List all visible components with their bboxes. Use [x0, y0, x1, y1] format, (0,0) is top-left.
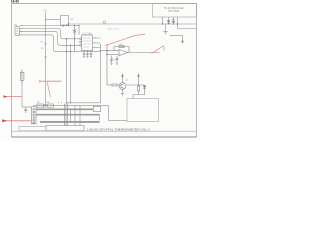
junction dot A38 [66, 38, 67, 39]
junction dot bus start 3 [21, 30, 22, 33]
resistor R7 base [112, 84, 117, 86]
diode D2 in inset [172, 20, 175, 23]
red line R4 [4, 120, 31, 122]
wire bus line 4 [22, 35, 101, 52]
border frame left [11, 4, 13, 138]
wire to ground from rail [165, 24, 167, 32]
wire vertical bus left [45, 12, 47, 106]
resistor R8 vertical [137, 86, 139, 91]
small rect bottom left [19, 127, 46, 131]
Q1 circle [119, 83, 126, 90]
junction dot A51 [66, 51, 67, 52]
red horizontal R3 with arrow [5, 96, 22, 98]
ground C1 [83, 56, 85, 57]
svg-text:16-30: 16-30 [11, 0, 19, 4]
red annotation horizontal R1 [40, 80, 62, 83]
supply arrow 2 [138, 74, 140, 76]
LED D3 [143, 86, 145, 89]
junction dot rail-pin2 [168, 23, 169, 24]
wire Q1 to meter [132, 95, 134, 99]
svg-text:10k: 10k [114, 60, 117, 62]
junction dot U3 in2 [106, 54, 107, 55]
meter box M1 [127, 99, 159, 122]
junction dot rail-pin4 [177, 23, 178, 24]
junction dot Q1 wire [138, 84, 139, 85]
supply arrow Q1 [122, 74, 124, 76]
display connector P2 [32, 107, 37, 124]
inset pin stub 3 [172, 17, 174, 24]
red annotation line A [106, 34, 146, 45]
wire top of display row [33, 105, 109, 107]
junction dot bus start 2 [21, 28, 22, 29]
wire supply2 down [138, 76, 140, 86]
junction dot U3 in [106, 50, 107, 51]
junction dot out U2 [100, 44, 101, 45]
wire x22 to P2 [22, 106, 32, 108]
wire Q1 collector right [126, 84, 145, 86]
pin connection inset box [153, 4, 197, 18]
ground U3 area [110, 64, 118, 65]
junction dot bus start 4 [21, 34, 22, 35]
border frame top [12, 3, 197, 5]
U2 left pin circles [80, 38, 82, 40]
capacitor C3 [90, 53, 92, 56]
wire B1 pin down right [66, 24, 68, 27]
capacitor C4 [116, 56, 119, 63]
junction dot R3 top [74, 25, 75, 26]
resistor R5 on feedback [119, 45, 124, 47]
junction dot rail-pin1 [162, 23, 163, 24]
LCD bus band 2 [36, 114, 100, 116]
red arrowhead R4 [2, 119, 7, 122]
connector P1 left [15, 26, 22, 36]
inset pin stub 1 [162, 17, 164, 24]
inset pin stub 4 [177, 17, 179, 29]
arrow terminal [182, 41, 184, 43]
svg-text:LIQUID CRYSTAL THERMOMETER VO: LIQUID CRYSTAL THERMOMETER VOL-2 [87, 128, 150, 132]
wire R8 down [133, 91, 139, 95]
red slant R2 [47, 82, 50, 97]
pin circle B1 left [62, 25, 64, 27]
capacitor C5 [24, 107, 27, 113]
junction dot r3 bus3 [74, 45, 75, 46]
U2 inner marks [83, 38, 91, 47]
bottom rectangle [46, 126, 84, 131]
wire x107 vertical [106, 44, 108, 85]
ground C3 [90, 56, 92, 57]
border frame bottom outer [12, 136, 197, 138]
inset pin stub 2 [168, 17, 170, 24]
junction dot x100 out [100, 50, 101, 51]
junction dot bus1-x68 [68, 25, 69, 26]
wire vertical x68.4 [67, 24, 69, 26]
svg-text:ICL7106: ICL7106 [83, 32, 93, 35]
lamp tap on rail [103, 21, 106, 24]
wire D3 [139, 85, 145, 95]
junction dots bottom row [58, 102, 59, 103]
junction dot x22 top [21, 70, 22, 71]
wire segment right lower [170, 35, 183, 41]
junction dot bus1-x66 [66, 25, 67, 26]
wire right column x100.5 [100, 45, 102, 103]
wire bus line 3 [22, 32, 81, 46]
wire supply rail [69, 23, 197, 25]
tick on x46 [44, 44, 47, 57]
wire long vertical B [70, 45, 72, 103]
LCD bus band 3 [40, 121, 100, 123]
junction dot x22 bottom [21, 82, 22, 83]
lamp LP1 [44, 104, 47, 107]
ground symbol inset [163, 32, 168, 34]
Q1 inner [121, 84, 125, 89]
svg-text:ADJ 100mV: ADJ 100mV [108, 28, 120, 31]
wire drops to bottom rect [64, 104, 80, 126]
resistor R2 on x22 [20, 73, 24, 81]
junction dot B45 [70, 45, 71, 46]
junction dot A45 [66, 45, 67, 46]
wire battery to bus [46, 19, 61, 21]
resistor R10 [48, 104, 54, 107]
svg-text:TOP VIEW: TOP VIEW [168, 10, 180, 13]
junction dot bus start 1 [21, 25, 22, 26]
op-amp U3 [107, 44, 160, 85]
wire to opamp2 [101, 50, 108, 52]
wire Q1 base [107, 84, 112, 86]
wire Q1 collector supply [122, 76, 124, 83]
wire U3 output [129, 52, 160, 54]
junction dot r3 bus2 [74, 38, 75, 39]
red annotation line B [152, 46, 165, 54]
wire bottom cross [67, 102, 101, 104]
transistor Q1 stage [107, 74, 146, 96]
wire bus line 2 [22, 29, 81, 39]
wire display top corner [109, 106, 127, 121]
svg-text:1M: 1M [41, 48, 44, 50]
U2 pin numbers [94, 37, 96, 47]
paper background [0, 0, 200, 142]
U2 bottom stubs [84, 51, 91, 54]
wire long vertical A [66, 39, 68, 103]
U3 triangle [119, 50, 128, 56]
ground C2 [86, 56, 88, 57]
junction dot B51 [70, 51, 71, 52]
capacitor C1 [83, 53, 85, 56]
junction dot bottom cross B [70, 102, 71, 103]
IC U2 box [80, 35, 101, 58]
wire R7 to Q1 [117, 84, 121, 86]
red arrowhead R3 [4, 95, 8, 98]
wire band2 to box [99, 115, 101, 121]
diode D1 in inset [167, 21, 170, 24]
border frame right [196, 4, 198, 138]
wire inset bottom rail 2 [178, 28, 197, 30]
wire Q1 emitter [122, 89, 124, 93]
capacitor C2 [86, 53, 88, 56]
junction dot bottom cross A [66, 102, 67, 103]
wire U3 feedback [114, 47, 129, 53]
resistor R3 in vertical x74.5 [73, 26, 79, 52]
junction dot battery bus [45, 19, 46, 20]
wire bus line 1 [22, 25, 80, 27]
wire vertical x22 lower [21, 70, 23, 108]
small box K1 [93, 106, 100, 111]
wire verticals through bands [71, 106, 81, 122]
battery B1 box [61, 16, 69, 26]
resistor R6 vertical [111, 56, 113, 63]
lamp stem [104, 23, 106, 25]
LCD bus band 1 [36, 108, 93, 110]
resistor R9 [37, 104, 44, 107]
junction dot rail-pin3 [173, 23, 174, 24]
border frame bottom inner [12, 130, 197, 132]
junction dot rail-x68 [68, 23, 69, 24]
ground Q1 [121, 93, 124, 95]
U2 right stubs [93, 38, 101, 48]
junction dot x79 top [78, 25, 79, 26]
wire B1 pin down left [62, 24, 64, 27]
wire x79 drop to IC top [78, 26, 80, 36]
wire U3 +input [107, 54, 119, 56]
wire U3 -input [107, 50, 119, 52]
